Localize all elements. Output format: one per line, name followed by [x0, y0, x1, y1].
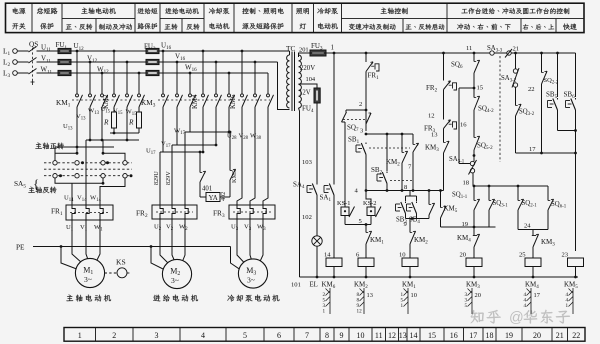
svg-text:@: @: [509, 310, 524, 326]
node 24 rail: [518, 229, 548, 231]
svg-text:2: 2: [359, 101, 362, 108]
SQ3-2 contact: [515, 103, 517, 106]
svg-text:10: 10: [411, 292, 417, 299]
SA5 dashed rows + circles: [44, 162, 132, 164]
svg-text:8: 8: [325, 331, 329, 340]
svg-text:22: 22: [528, 86, 535, 93]
junction dots on phase rails: [76, 50, 79, 53]
bottom number strip: [64, 328, 585, 342]
svg-text:104: 104: [306, 76, 316, 83]
svg-text:17: 17: [529, 146, 536, 153]
svg-text:KM4: KM4: [192, 94, 199, 109]
svg-text:1: 1: [566, 303, 569, 309]
svg-text:10: 10: [399, 252, 406, 259]
KM4 interlock + coil 20: [473, 233, 475, 236]
svg-text:23: 23: [562, 252, 569, 259]
clutch branch 401 YA 402: [199, 151, 202, 154]
node3 rail: [366, 133, 413, 135]
svg-text:401: 401: [202, 186, 212, 193]
KM3 aux contact: [443, 132, 445, 140]
svg-text:20: 20: [533, 331, 541, 340]
SQ5-2 contact: [473, 135, 475, 138]
svg-text:EL: EL: [310, 282, 318, 289]
motor M2: [162, 259, 191, 288]
svg-text:KS-2: KS-2: [363, 200, 377, 207]
svg-text:KM6: KM6: [230, 94, 237, 109]
contact usage table: [329, 288, 331, 314]
svg-text:13: 13: [431, 132, 438, 139]
wire 4/8 bottom rail: [366, 190, 444, 192]
svg-text:15: 15: [477, 85, 484, 92]
svg-text:KM5: KM5: [231, 170, 238, 183]
motor wires M2: [160, 219, 169, 264]
svg-text:14: 14: [324, 252, 331, 259]
svg-text:18: 18: [463, 180, 470, 187]
SQ2-1 contact: [517, 186, 519, 198]
svg-text:102: 102: [302, 214, 312, 221]
SB5 button: [556, 52, 559, 55]
header table: [6, 3, 585, 32]
svg-text:16: 16: [450, 331, 458, 340]
KM3 KM4 KM6 main contacts (feed & pump): [162, 51, 164, 93]
watermark: [471, 310, 484, 323]
svg-text:17: 17: [534, 292, 541, 299]
svg-text:103: 103: [302, 159, 313, 166]
svg-text:11: 11: [375, 331, 383, 340]
svg-text:14: 14: [410, 331, 418, 340]
svg-text:25: 25: [519, 252, 526, 259]
contact usage table: [572, 288, 574, 314]
svg-text:3~: 3~: [247, 276, 255, 285]
motor wires M1: [72, 220, 82, 263]
KM3 interlock + coil 25: [532, 233, 534, 236]
svg-text:24: 24: [524, 223, 531, 230]
top control rail (wire 1): [326, 52, 490, 54]
svg-text:18: 18: [486, 331, 494, 340]
svg-text:{: {: [33, 176, 39, 191]
KM5 aux contact (fast traverse): [440, 191, 442, 206]
svg-text:13: 13: [367, 292, 373, 299]
KM1 self-hold contact: [365, 230, 367, 233]
KS speed relay: [105, 272, 117, 274]
motor M3: [238, 259, 267, 288]
svg-text:1: 1: [401, 303, 404, 309]
motor M1: [75, 258, 104, 287]
SB1 linked NO contact: [412, 134, 414, 142]
SQ6-1 contact: [547, 186, 549, 198]
svg-text:12: 12: [428, 113, 435, 120]
motor name labels: [66, 295, 73, 302]
svg-text:22: 22: [572, 331, 580, 340]
svg-text:12: 12: [357, 309, 363, 315]
svg-text:19: 19: [505, 331, 513, 340]
FR2 trip contact: [442, 52, 445, 55]
SQ3-1 contact: [488, 186, 490, 198]
svg-text:7: 7: [305, 331, 309, 340]
contact usage table: [471, 288, 473, 314]
svg-text:KS-1: KS-1: [337, 200, 351, 207]
svg-text:R: R: [128, 118, 134, 127]
svg-text:11: 11: [466, 45, 472, 52]
SA3-1 bypass wire: [459, 87, 474, 89]
SQ2-2 contact: [540, 52, 543, 55]
svg-text:4: 4: [201, 331, 205, 340]
node 19 rail: [441, 226, 496, 228]
svg-text:1: 1: [323, 309, 326, 315]
SA5 top brackets: [55, 153, 77, 160]
KM2 contact + coil: [409, 230, 411, 233]
svg-text:220V: 220V: [300, 65, 315, 72]
svg-text:21: 21: [556, 331, 564, 340]
svg-text:21: 21: [513, 46, 520, 53]
svg-text:20: 20: [475, 292, 481, 299]
FR3 trip contact: [443, 118, 445, 120]
svg-text:12: 12: [388, 331, 396, 340]
SQ4-2 contact: [473, 95, 475, 98]
svg-text:QS: QS: [29, 40, 38, 49]
svg-text:101: 101: [291, 282, 301, 289]
svg-text:5: 5: [465, 303, 468, 309]
svg-text:16: 16: [460, 122, 467, 129]
svg-text:R: R: [103, 118, 109, 127]
SB6 button: [575, 53, 577, 97]
svg-text:17: 17: [469, 331, 477, 340]
svg-text:2: 2: [112, 331, 116, 340]
svg-text:1: 1: [331, 44, 335, 52]
SQ7 bypass wire to KS-1: [344, 122, 346, 207]
svg-text:10: 10: [357, 331, 365, 340]
braking resistors R: [112, 112, 117, 128]
svg-text:3~: 3~: [171, 276, 179, 285]
svg-text:PE: PE: [16, 243, 25, 252]
KM1 KM2 main contacts: [76, 51, 78, 93]
svg-text:20: 20: [460, 252, 467, 259]
svg-text:402: 402: [220, 192, 227, 201]
svg-text:3~: 3~: [84, 275, 92, 284]
svg-text:829U: 829U: [153, 171, 160, 185]
svg-text:15: 15: [428, 331, 436, 340]
contact usage table: [407, 288, 409, 314]
spindle reversing switch SA5: [35, 143, 42, 149]
fuse FU4: [314, 88, 320, 103]
SQ1-1 contact: [473, 186, 475, 198]
motor wires M3: [237, 219, 245, 264]
phase rails: [71, 50, 290, 52]
contact usage table: [363, 288, 365, 314]
contact usage table: [530, 288, 532, 314]
svg-text:12V: 12V: [299, 90, 311, 97]
svg-text:1: 1: [78, 331, 82, 340]
svg-text:9: 9: [340, 331, 344, 340]
svg-text:3: 3: [155, 331, 159, 340]
wire 17: [516, 152, 576, 154]
svg-text:4: 4: [524, 303, 527, 309]
FR1 trip contact: [365, 52, 368, 55]
svg-text:829V: 829V: [165, 171, 172, 185]
bottom control rail 101: [300, 276, 579, 278]
SA1 / coil 14 column: [333, 53, 335, 183]
lamp EL: [312, 236, 322, 246]
svg-text:13: 13: [399, 331, 407, 340]
svg-text:KS: KS: [116, 258, 126, 267]
svg-text:6: 6: [277, 331, 281, 340]
svg-text:5: 5: [243, 331, 247, 340]
svg-text:YA: YA: [209, 194, 218, 202]
KM1 aux (parallel): [428, 191, 430, 203]
svg-text:201: 201: [299, 47, 309, 54]
